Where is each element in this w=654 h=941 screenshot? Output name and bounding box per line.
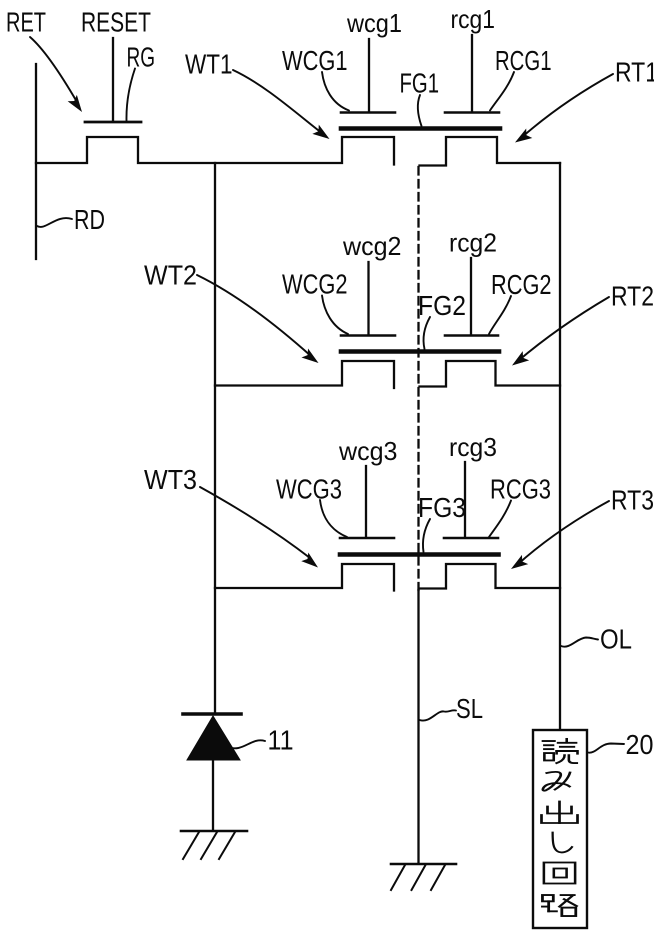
svg-text:RT1: RT1 [615, 57, 654, 88]
svg-text:rcg1: rcg1 [451, 4, 496, 34]
svg-text:FG1: FG1 [400, 68, 440, 99]
svg-text:WCG1: WCG1 [282, 45, 348, 76]
svg-text:WT1: WT1 [185, 49, 233, 80]
svg-text:11: 11 [268, 725, 294, 756]
svg-text:RCG3: RCG3 [490, 474, 551, 505]
svg-text:OL: OL [600, 624, 632, 655]
svg-text:wcg1: wcg1 [346, 8, 402, 38]
svg-text:RCG1: RCG1 [495, 45, 552, 76]
svg-text:RT3: RT3 [611, 485, 654, 516]
svg-text:wcg2: wcg2 [342, 231, 401, 261]
svg-text:WCG2: WCG2 [282, 269, 348, 300]
svg-text:wcg3: wcg3 [338, 436, 397, 466]
svg-text:RCG2: RCG2 [491, 269, 552, 300]
svg-text:RET: RET [6, 7, 46, 38]
svg-text:rcg2: rcg2 [449, 228, 497, 258]
svg-text:WT2: WT2 [144, 260, 197, 291]
svg-text:RESET: RESET [81, 7, 151, 38]
svg-text:SL: SL [456, 693, 483, 724]
svg-text:rcg3: rcg3 [449, 432, 497, 462]
svg-text:RG: RG [127, 42, 156, 73]
svg-text:WT3: WT3 [144, 464, 197, 495]
svg-text:20: 20 [626, 729, 654, 760]
svg-text:WCG3: WCG3 [276, 474, 342, 505]
svg-text:RD: RD [74, 204, 105, 235]
svg-text:RT2: RT2 [611, 281, 654, 312]
svg-text:FG2: FG2 [418, 290, 466, 321]
svg-text:FG3: FG3 [418, 492, 466, 523]
